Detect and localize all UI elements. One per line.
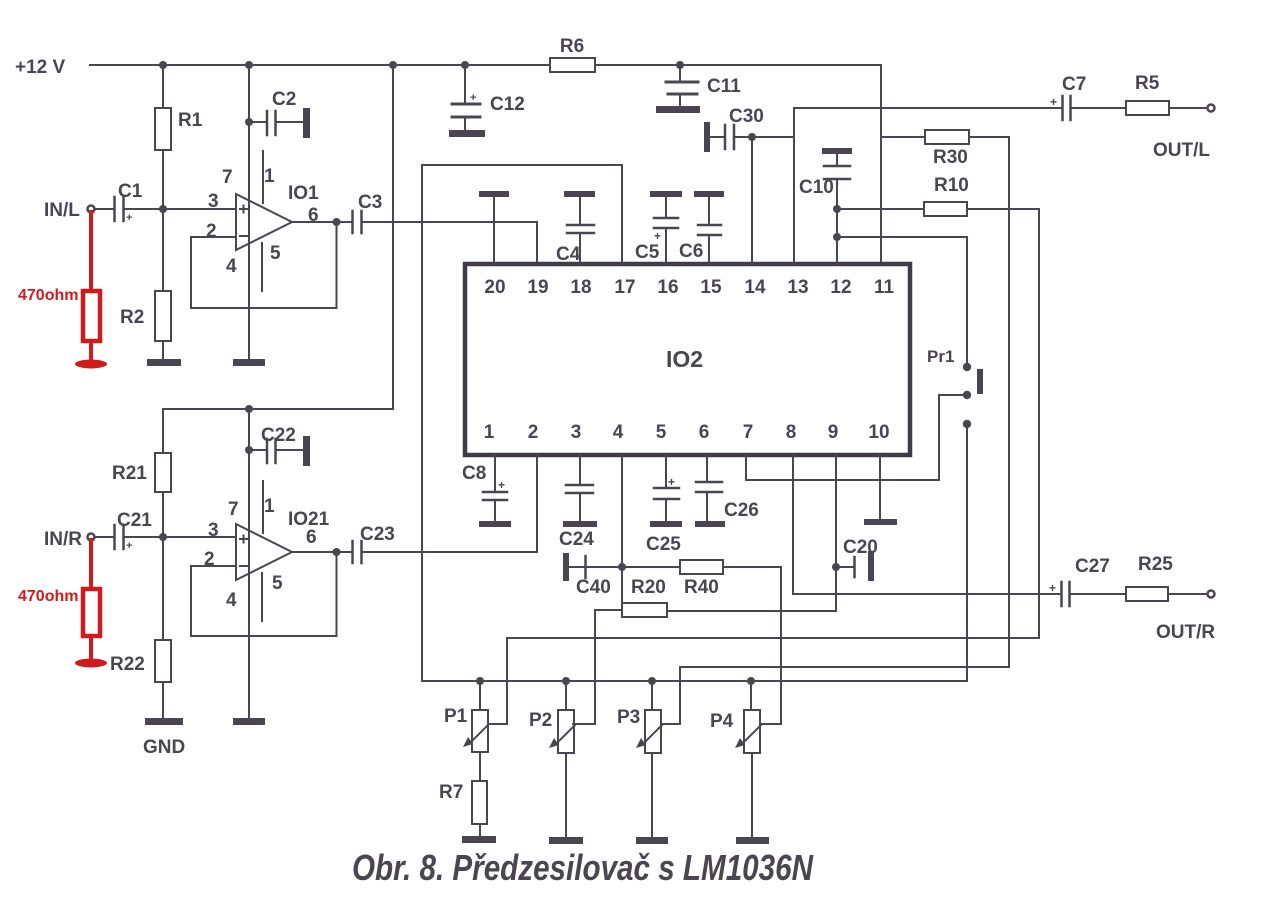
wire P1 wiper net to R10 line <box>488 638 1039 724</box>
output terminal OUT/R <box>1156 591 1215 644</box>
wire feedback loop IO1 <box>191 222 337 308</box>
node output-C23 junction <box>333 548 341 556</box>
resistor R21 <box>112 409 171 537</box>
node bus-P4 <box>747 677 755 685</box>
node rail-ch2 <box>389 61 397 69</box>
wire R10 right vertical <box>1038 209 1040 638</box>
wire R30 right vertical <box>1008 137 1010 667</box>
svg-text:OUT/R: OUT/R <box>1156 622 1215 643</box>
wire Pr1 bottom to pot bus <box>966 424 968 681</box>
node ch2 rail opamp <box>245 405 253 413</box>
wire pin 13 to C7 <box>794 108 1061 264</box>
wire Pr1 middle to pin 7 net <box>939 395 967 480</box>
capacitor C3 <box>353 192 383 233</box>
svg-text:C25: C25 <box>646 534 681 555</box>
node bus-P2 <box>562 677 570 685</box>
node output-C3 junction <box>333 218 341 226</box>
wire input line R <box>125 536 236 538</box>
node bus-P1 <box>476 677 484 685</box>
capacitor C7 <box>1050 74 1126 120</box>
wire rail to IC pin 11 <box>880 65 882 264</box>
capacitor C6 <box>679 191 724 264</box>
svg-text:R7: R7 <box>439 782 463 803</box>
resistor R20 <box>595 577 836 617</box>
node pin12-R10 <box>833 205 841 213</box>
resistor R40 <box>622 560 781 598</box>
node input-R1-R2 junction L <box>159 205 167 213</box>
resistor R22 <box>110 537 171 718</box>
input terminal IN/R <box>44 529 95 550</box>
wire opamp1 output <box>292 221 351 223</box>
wire opamp2 pin2 <box>191 565 236 567</box>
wire feedback loop IO21 <box>191 552 337 636</box>
wire opamp1 pin7 vertical <box>248 65 250 358</box>
input terminal IN/L <box>44 200 95 221</box>
capacitor C30 <box>704 106 764 152</box>
potentiometer P2 <box>529 681 575 753</box>
svg-text:P3: P3 <box>617 707 640 728</box>
node rail-R1 <box>159 61 167 69</box>
svg-text:+: + <box>1049 581 1056 595</box>
ground under R2 <box>147 359 181 366</box>
resistor 470ohm red shunt R <box>18 540 107 668</box>
ground under R7 <box>462 836 496 843</box>
capacitor C12 <box>449 65 525 137</box>
svg-text:P4: P4 <box>710 711 734 732</box>
capacitor C5 <box>635 191 682 264</box>
svg-text:C20: C20 <box>843 537 878 558</box>
switch Pr1 <box>927 347 983 427</box>
node rail-C11 <box>676 61 684 69</box>
resistor R10 <box>837 175 1039 216</box>
wire P2 bottom to ground <box>549 753 583 844</box>
wire IC pin 7 to Pr1 middle <box>746 455 939 480</box>
pin 1 stub IO21 <box>262 481 264 533</box>
+12V power rail <box>90 64 881 66</box>
wire IC pin 8 to C27 <box>793 455 1060 594</box>
svg-text:C27: C27 <box>1075 556 1110 577</box>
node input junction R <box>159 533 167 541</box>
wire C30 to pin 14 and pin 13 net <box>735 137 794 264</box>
wire pin12 to Pr1 top <box>837 237 967 367</box>
wire P4 bottom to ground <box>736 753 769 844</box>
resistor R5 <box>1126 73 1207 115</box>
ground under opamp2 <box>233 718 265 725</box>
capacitor C27 <box>1049 556 1126 606</box>
potentiometer P4 <box>710 681 761 753</box>
node rail-opamp1 <box>245 61 253 69</box>
wire IC pin 9 to C20 node <box>835 455 837 611</box>
node rail-C12 <box>461 61 469 69</box>
svg-text:R25: R25 <box>1138 554 1173 575</box>
capacitor C24 <box>559 455 597 550</box>
resistor R30 <box>881 130 1009 168</box>
capacitor C25 <box>646 455 682 555</box>
svg-text:C26: C26 <box>724 500 759 521</box>
node pin12-Pr1 <box>833 233 841 241</box>
pin 5 stub IO1 <box>261 243 263 291</box>
wire C23 to IC pin 2 <box>363 455 537 552</box>
svg-text:C24: C24 <box>559 529 594 550</box>
node pin9-C20 <box>832 563 840 571</box>
wire opamp1 pin2 <box>191 236 236 238</box>
op-amp IO1 <box>236 183 319 250</box>
wire opamp2 output <box>292 551 351 553</box>
capacitor C2 <box>245 89 310 138</box>
resistor R7 <box>439 752 487 836</box>
ground GND under R22 <box>143 718 185 758</box>
resistor R6 <box>550 36 595 72</box>
resistor R2 <box>120 209 171 359</box>
node pin4-C40-R40 <box>618 563 626 571</box>
wire R20 left to P2 wiper <box>573 610 595 724</box>
wire IC pin 4 to C40-R40 node <box>621 455 623 603</box>
capacitor C22 <box>245 425 310 466</box>
svg-text:P1: P1 <box>444 706 468 727</box>
wire C10 to IC pin 12 <box>836 180 838 264</box>
output terminal OUT/L <box>1153 105 1215 162</box>
ground under opamp1 <box>233 359 265 366</box>
capacitor C26 <box>695 455 759 527</box>
svg-text:C40: C40 <box>576 577 611 598</box>
capacitor C11 <box>656 65 741 113</box>
wire IC pin 2 stub <box>536 455 538 480</box>
svg-text:C8: C8 <box>462 463 486 484</box>
pin 1 stub IO1 <box>262 151 264 203</box>
IC IO2 LM1036N <box>465 264 910 455</box>
wire rail branch ch2 <box>163 65 393 409</box>
capacitor C40 <box>563 553 622 598</box>
wire potentiometer bus <box>422 680 967 682</box>
wire opamp2 pin7 vertical <box>248 409 250 718</box>
capacitor C20 <box>836 537 878 581</box>
capacitor C23 <box>353 524 395 563</box>
wire pin17 net <box>422 165 622 681</box>
svg-text:P2: P2 <box>529 710 552 731</box>
wire R40 to P4 wiper <box>761 567 781 724</box>
potentiometer P1 <box>444 681 489 752</box>
resistor R25 <box>1126 554 1207 601</box>
resistor 470ohm red shunt L <box>18 212 107 369</box>
svg-text:Obr. 8. Předzesilovač s LM1036: Obr. 8. Předzesilovač s LM1036N <box>352 847 814 888</box>
resistor R1 <box>155 65 203 209</box>
svg-text:R40: R40 <box>684 577 719 598</box>
wire P3 bottom to ground <box>636 753 668 844</box>
wire P3 wiper net to R30 line <box>662 667 1009 724</box>
wire C3 to IC pin 19 <box>363 222 537 264</box>
pin 5 stub IO21 <box>261 573 263 621</box>
op-amp IO21 <box>236 509 330 580</box>
terminal bar pin 20 <box>479 191 509 264</box>
svg-text:+: + <box>498 478 505 492</box>
ground under IC pin 10 <box>864 455 897 525</box>
node bus-P3 <box>648 677 656 685</box>
svg-text:R20: R20 <box>631 577 666 598</box>
capacitor C8 <box>462 455 511 527</box>
capacitor C4 <box>556 191 595 265</box>
potentiometer P3 <box>617 681 662 753</box>
capacitor C21 <box>95 510 152 552</box>
capacitor C10 <box>799 148 852 198</box>
capacitor C1 <box>95 181 143 224</box>
wire input line L <box>125 208 236 210</box>
node C30 junction <box>748 133 756 141</box>
